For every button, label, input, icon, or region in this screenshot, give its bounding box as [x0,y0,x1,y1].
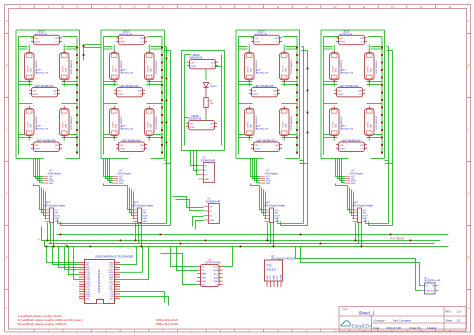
svg-text:SQW: SQW [280,275,282,280]
svg-text:1N4007: 1N4007 [210,86,218,88]
svg-text:DO: DO [431,291,434,293]
svg-text:RTC: RTC [267,264,273,268]
svg-text:VBAT: VBAT [202,273,208,276]
svg-text:BUZZER-U+4P: BUZZER-U+4P [425,281,441,283]
svg-text:SDA: SDA [202,280,207,283]
svg-text:Sheet_1: Sheet_1 [359,311,376,316]
svg-text:58 ws2812b draws roughly 3480m: 58 ws2812b draws roughly 3480mA [18,322,68,326]
svg-text:R1? RES-M: R1? RES-M [391,237,405,241]
svg-text:GND: GND [267,275,269,280]
svg-text:DS1311: DS1311 [267,267,277,271]
svg-text:ESP32-WROOM-32 TILE READER: ESP32-WROOM-32 TILE READER [96,256,134,259]
svg-text:C: C [6,129,8,132]
svg-text:10K: 10K [210,103,214,105]
svg-text:REV:: REV: [446,310,452,314]
svg-text:D: D [468,193,470,196]
svg-text:GND: GND [202,277,207,279]
svg-text:Drawn By:: Drawn By: [410,326,422,330]
svg-text:2021-07-06: 2021-07-06 [387,326,402,330]
svg-text:SQW: SQW [213,270,218,272]
svg-text:SDA: SDA [273,275,276,280]
svg-text:VCC: VCC [214,267,219,269]
svg-text:ESP32 WROOM 32: ESP32 WROOM 32 [97,269,101,292]
svg-text:D: D [6,193,8,196]
svg-text:1/1: 1/1 [457,318,461,322]
svg-text:VCC: VCC [270,275,272,280]
svg-text:1.0: 1.0 [457,310,461,314]
svg-text:GND: GND [214,281,219,283]
svg-text:3480+313+3795: 3480+313+3795 [156,322,179,326]
svg-text:SDA: SDA [214,276,219,279]
svg-text:Company:: Company: [374,318,386,322]
svg-text:GND: GND [426,291,431,293]
svg-text:JuHaslJ: JuHaslJ [427,326,438,330]
svg-text:Your Company: Your Company [393,318,412,322]
svg-text:C: C [468,129,470,132]
svg-text:Date:: Date: [374,326,380,330]
svg-text:TITLE:: TITLE: [342,309,349,311]
svg-text:Sheet:: Sheet: [446,318,454,322]
svg-text:EasyEDA: EasyEDA [352,324,373,330]
